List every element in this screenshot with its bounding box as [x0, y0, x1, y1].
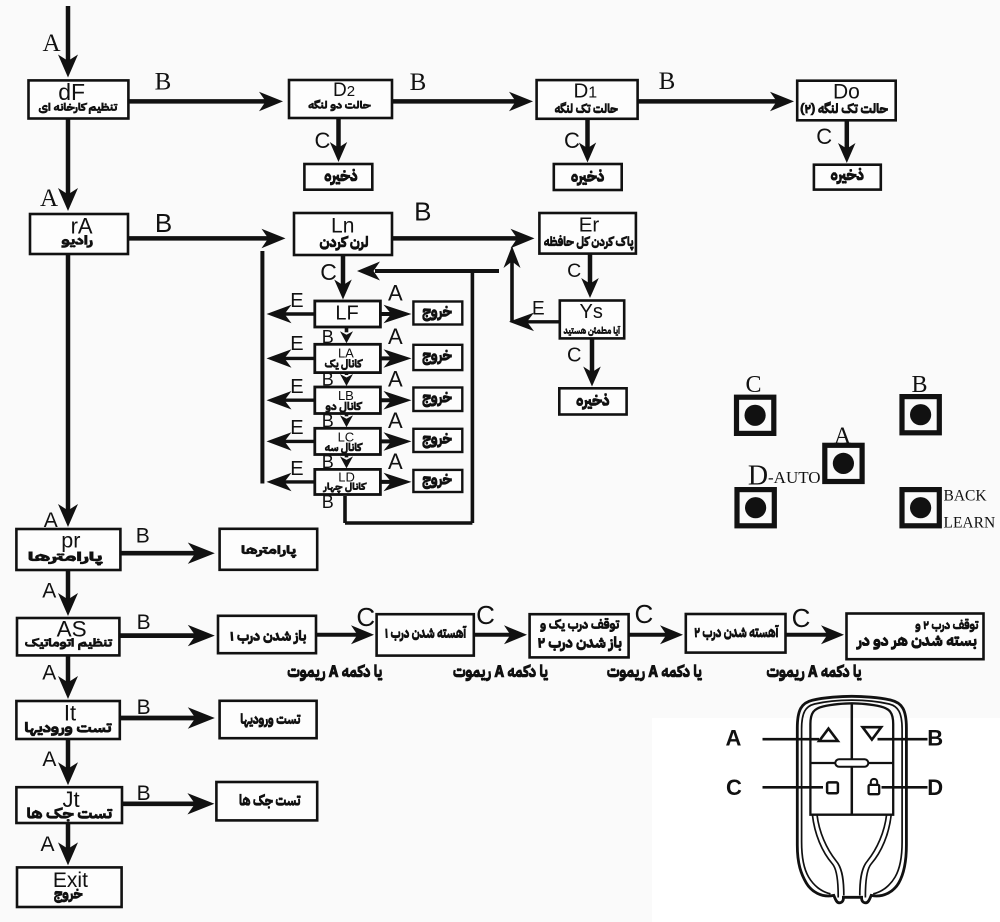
svg-text:B: B — [927, 725, 943, 750]
svg-text:Er: Er — [579, 213, 600, 236]
svg-text:A: A — [726, 725, 742, 750]
svg-text:A: A — [42, 662, 56, 685]
svg-text:Ln: Ln — [331, 214, 354, 237]
svg-text:A: A — [388, 281, 403, 306]
svg-text:E: E — [290, 290, 303, 312]
svg-text:-AUTO: -AUTO — [768, 468, 821, 487]
svg-text:A: A — [40, 185, 58, 212]
svg-text:E: E — [290, 417, 303, 439]
svg-text:C: C — [356, 602, 375, 632]
svg-text:LB: LB — [338, 388, 354, 403]
svg-text:B: B — [911, 372, 927, 398]
svg-text:C: C — [476, 600, 495, 630]
svg-text:rA: rA — [71, 213, 93, 238]
svg-text:B: B — [659, 68, 676, 95]
svg-text:A: A — [834, 424, 852, 450]
svg-text:C: C — [792, 603, 811, 633]
svg-text:A: A — [388, 449, 403, 474]
svg-text:B: B — [322, 327, 334, 347]
svg-text:It: It — [64, 701, 76, 726]
svg-text:D2: D2 — [333, 80, 355, 101]
svg-text:A: A — [40, 833, 54, 856]
svg-text:C: C — [564, 128, 580, 153]
svg-text:A: A — [388, 408, 403, 433]
svg-text:Exit: Exit — [53, 869, 88, 892]
svg-text:dF: dF — [58, 79, 85, 105]
svg-text:E: E — [290, 376, 303, 398]
svg-text:C: C — [745, 372, 761, 398]
svg-text:LD: LD — [338, 469, 355, 484]
svg-text:E: E — [290, 333, 303, 355]
svg-text:LC: LC — [338, 429, 355, 444]
svg-text:LF: LF — [335, 302, 358, 324]
svg-text:B: B — [414, 197, 431, 227]
svg-text:A: A — [388, 367, 403, 392]
svg-text:Do: Do — [833, 81, 860, 104]
svg-text:BACK: BACK — [944, 488, 988, 505]
svg-text:C: C — [567, 260, 581, 282]
svg-text:Ys: Ys — [580, 301, 603, 323]
svg-text:pr: pr — [61, 529, 80, 553]
svg-text:A: A — [42, 580, 56, 603]
svg-text:AS: AS — [57, 617, 87, 642]
svg-text:B: B — [155, 208, 172, 238]
svg-text:C: C — [320, 259, 337, 285]
svg-text:C: C — [635, 599, 654, 629]
svg-text:D: D — [748, 461, 768, 492]
svg-text:LEARN: LEARN — [944, 515, 996, 532]
svg-text:A: A — [42, 30, 60, 57]
svg-text:B: B — [137, 611, 151, 634]
svg-text:B: B — [322, 492, 334, 512]
svg-text:C: C — [726, 775, 742, 800]
svg-text:Jt: Jt — [62, 787, 79, 812]
svg-text:A: A — [388, 324, 403, 349]
svg-text:A: A — [42, 748, 56, 771]
svg-text:B: B — [136, 525, 150, 548]
svg-text:C: C — [567, 345, 581, 367]
svg-text:B: B — [137, 696, 151, 719]
svg-text:C: C — [315, 128, 331, 153]
svg-text:D: D — [927, 775, 943, 800]
svg-text:E: E — [532, 299, 545, 320]
svg-text:B: B — [322, 370, 334, 390]
svg-text:B: B — [322, 452, 334, 472]
svg-text:B: B — [137, 782, 151, 805]
svg-text:LA: LA — [338, 345, 354, 360]
svg-text:B: B — [155, 69, 172, 96]
svg-text:B: B — [410, 69, 427, 96]
svg-text:E: E — [290, 458, 303, 480]
svg-text:B: B — [322, 411, 334, 431]
svg-text:C: C — [816, 124, 832, 149]
